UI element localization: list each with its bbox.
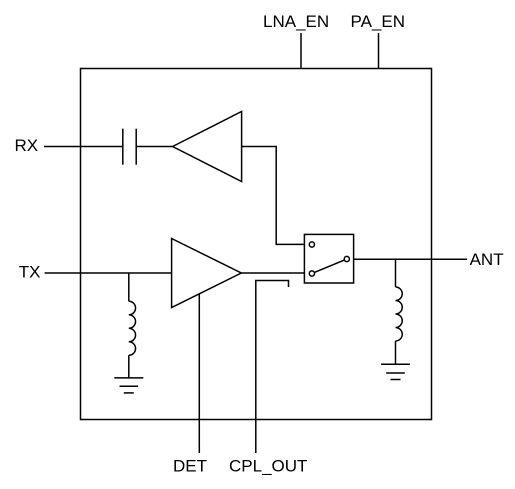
svg-text:ANT: ANT	[470, 250, 504, 269]
wire DET pin	[198, 294, 200, 453]
wire PA_EN pin	[378, 33, 380, 69]
switch SW1	[304, 234, 353, 283]
svg-text:TX: TX	[19, 263, 41, 282]
wire switch to ANT	[354, 258, 467, 260]
wire PA output to switch	[241, 272, 304, 274]
svg-text:CPL_OUT: CPL_OUT	[229, 457, 307, 476]
wire TX input	[45, 272, 172, 274]
svg-text:LNA_EN: LNA_EN	[263, 12, 329, 31]
svg-text:RX: RX	[15, 136, 39, 155]
op-amp LNA	[173, 112, 242, 182]
inductor L1	[129, 273, 136, 378]
wire C1 to LNA	[136, 146, 172, 148]
wire LNA_EN pin	[300, 33, 302, 69]
block outline U1	[81, 69, 432, 420]
svg-text:DET: DET	[173, 457, 207, 476]
wire RX input	[44, 146, 123, 148]
ground left	[114, 378, 143, 393]
capacitor C1	[123, 129, 136, 165]
coupler CPL	[256, 281, 289, 454]
svg-text:PA_EN: PA_EN	[351, 12, 406, 31]
wire LNA output to switch	[242, 147, 305, 245]
ground right	[381, 364, 410, 379]
inductor L2	[396, 259, 403, 364]
op-amp PA	[172, 239, 242, 308]
